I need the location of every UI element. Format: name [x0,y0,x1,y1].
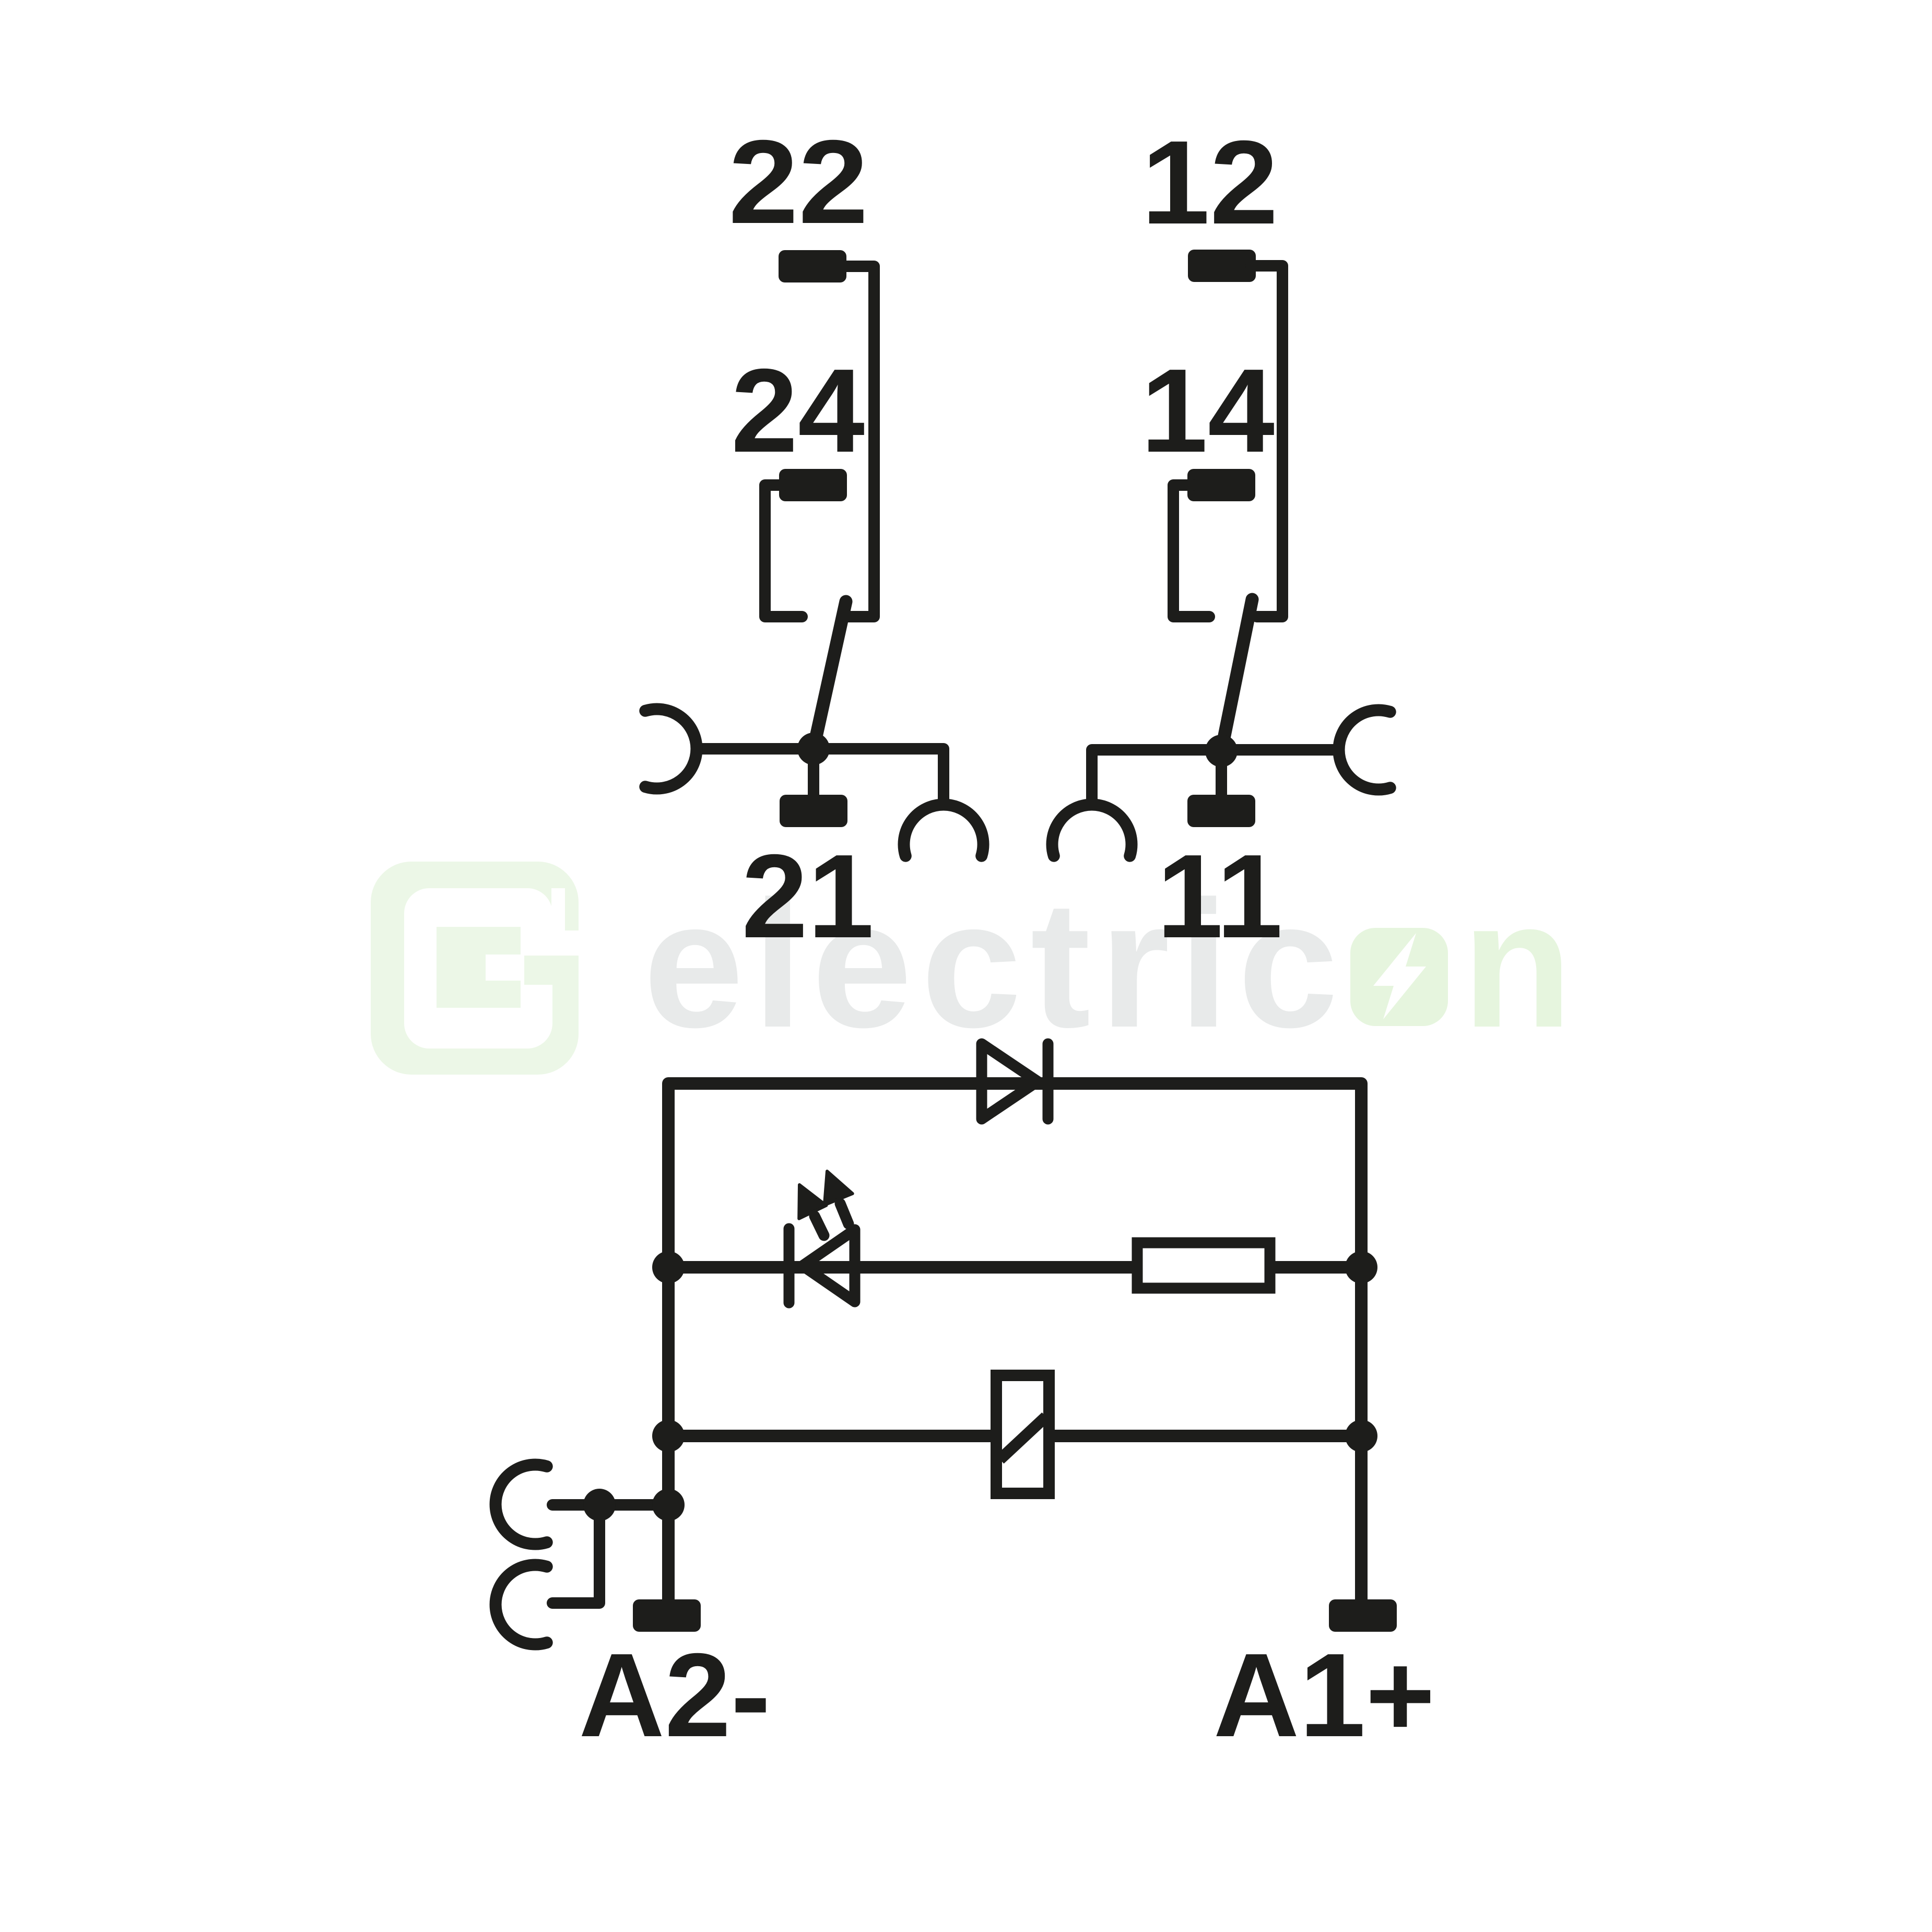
node A2 rail [652,1489,685,1521]
coil circuit frame wires [668,1083,1361,1600]
socket fork right of 11 [1339,710,1390,790]
node LED row left [652,1251,685,1283]
socket fork under corner (left group) [904,805,983,856]
svg-text:12: 12 [1141,116,1278,249]
wire from 24 [765,485,802,617]
wire from 22 [842,266,874,617]
terminal pad 14 [1187,469,1255,501]
relay coil K1 [996,1375,1049,1493]
wire common 11 [1092,750,1338,808]
socket fork under corner (right group) [1052,805,1132,856]
node junction 11 [1205,735,1238,767]
terminal pad 21 [780,795,847,827]
stub to pad 21 [808,749,819,796]
wire from 14 [1173,485,1209,617]
stub to pad 11 [1216,751,1227,796]
terminal pad 12 [1188,250,1256,282]
LED arrow 2 [824,1171,853,1224]
watermark o tile with bolt [1350,928,1448,1026]
terminal pad 24 [779,469,847,501]
LED D1 [789,1229,855,1303]
wire A2 socket upper [552,1499,668,1511]
svg-text:14: 14 [1141,345,1275,477]
wire from 12 [1251,266,1282,617]
socket fork left of 21 [645,709,697,788]
node junction 21 [797,733,830,765]
svg-text:24: 24 [731,345,865,477]
socket fork A2 upper [496,1465,547,1544]
wire coil row [668,1430,1361,1442]
svg-text:A1+: A1+ [1214,1629,1435,1762]
node LED row right [1345,1251,1377,1283]
switch blade 21-22 [814,602,846,748]
svg-text:11: 11 [1157,830,1282,963]
node coil row left [652,1420,685,1452]
LED arrow 1 [799,1185,826,1235]
wire A2 socket lower [552,1505,599,1603]
svg-text:21: 21 [741,830,874,963]
wire common 21 [697,749,944,808]
terminal pad A2 [633,1599,701,1632]
socket fork A2 lower [496,1565,547,1644]
switch blade 11-12 [1221,599,1252,751]
terminal pad A1 [1329,1599,1397,1632]
resistor R1 [1137,1243,1270,1288]
terminal pad 11 [1187,795,1255,827]
node A2 branch [583,1489,616,1521]
svg-text:22: 22 [728,116,868,249]
node coil row right [1345,1420,1377,1452]
svg-text:A2-: A2- [579,1629,770,1762]
svg-text:n: n [1462,864,1572,1065]
watermark logo square [371,862,585,1075]
diode V1 on top wire [982,1044,1048,1119]
terminal pad 22 [779,250,846,282]
wire LED row [668,1261,1361,1274]
